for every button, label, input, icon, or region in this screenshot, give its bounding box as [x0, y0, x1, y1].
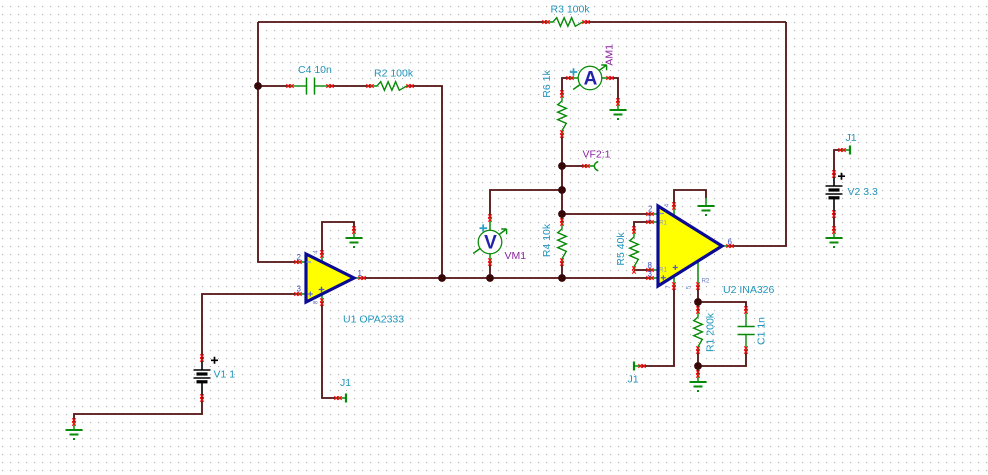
svg-text:R2: R2	[702, 278, 710, 285]
svg-text:R4 10k: R4 10k	[541, 223, 553, 257]
svg-text:1: 1	[648, 214, 653, 223]
svg-text:C4 10n: C4 10n	[298, 64, 332, 76]
svg-text:R5 40k: R5 40k	[615, 232, 627, 266]
svg-text:J1: J1	[340, 377, 351, 389]
svg-text:R6 1k: R6 1k	[541, 70, 553, 98]
svg-text:3: 3	[297, 285, 302, 294]
svg-text:VM1: VM1	[505, 250, 527, 262]
svg-text:VF2:1: VF2:1	[583, 149, 611, 161]
svg-text:5: 5	[686, 285, 693, 289]
svg-text:R1: R1	[659, 220, 667, 227]
svg-text:6: 6	[728, 238, 733, 247]
svg-text:3: 3	[648, 270, 653, 279]
svg-text:2: 2	[648, 205, 653, 214]
svg-text:4: 4	[664, 203, 671, 207]
svg-text:R3 100k: R3 100k	[551, 4, 591, 16]
svg-text:8: 8	[313, 300, 320, 304]
svg-text:AM1: AM1	[604, 44, 616, 66]
svg-text:2: 2	[297, 253, 302, 262]
svg-text:J1: J1	[628, 374, 639, 386]
svg-text:J1: J1	[846, 132, 857, 144]
svg-text:V2 3.3: V2 3.3	[848, 186, 879, 198]
svg-text:1: 1	[358, 269, 363, 278]
svg-text:R2 100k: R2 100k	[374, 68, 414, 80]
svg-text:V1 1: V1 1	[214, 369, 236, 381]
svg-text:C1 1n: C1 1n	[756, 317, 768, 345]
svg-text:A: A	[584, 69, 598, 90]
svg-text:4: 4	[313, 250, 320, 254]
svg-text:R1 200k: R1 200k	[705, 312, 717, 352]
svg-text:R1: R1	[659, 267, 667, 274]
svg-text:V: V	[484, 233, 497, 254]
svg-text:U1 OPA2333: U1 OPA2333	[343, 314, 404, 326]
svg-text:7: 7	[665, 285, 672, 289]
svg-text:U2 INA326: U2 INA326	[723, 284, 775, 296]
